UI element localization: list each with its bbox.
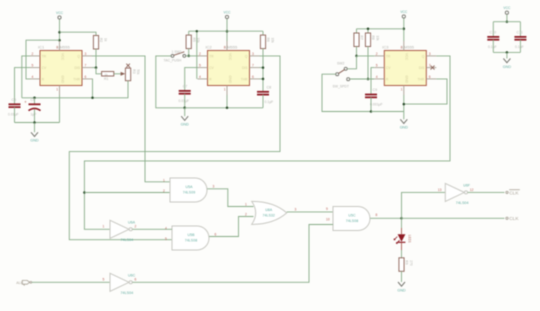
svg-text:5: 5 bbox=[376, 64, 378, 68]
junction VCC3 / resistor branch bbox=[403, 28, 406, 31]
unconnected-pin X mark on R3 top bbox=[126, 64, 130, 68]
svg-text:LM555: LM555 bbox=[402, 44, 415, 49]
svg-text:4: 4 bbox=[376, 75, 378, 79]
svg-text:10: 10 bbox=[326, 218, 330, 222]
svg-text:GND: GND bbox=[503, 65, 512, 69]
wire S1 to IC2 TR pin 2 bbox=[186, 55, 198, 57]
wire U6A output to U5B input 4 bbox=[132, 228, 172, 230]
op IC2 LM555 timer bbox=[198, 41, 260, 95]
capacitor C10 bbox=[487, 31, 499, 49]
svg-text:3: 3 bbox=[295, 207, 297, 211]
wire IC1 TR pin 2 to loop bbox=[22, 56, 30, 98]
svg-text:2: 2 bbox=[163, 189, 165, 193]
wire IC3 CV pin 5 to C9 bbox=[371, 68, 374, 95]
op IC1 LM555 timer bbox=[30, 41, 92, 95]
svg-text:74LS04: 74LS04 bbox=[456, 201, 469, 205]
junction C9 / rail bbox=[370, 110, 373, 113]
svg-text:2: 2 bbox=[199, 52, 201, 56]
svg-text:Q: Q bbox=[422, 54, 425, 58]
junction DIS1 node bbox=[95, 66, 98, 69]
resistor R2 bbox=[93, 36, 107, 50]
switch S1 push button bbox=[171, 55, 174, 58]
wire ALE to U6C input bbox=[32, 281, 110, 283]
capacitor C11 bbox=[514, 31, 526, 49]
power symbol VCC (bypass) bbox=[503, 6, 511, 14]
svg-text:THR: THR bbox=[241, 77, 248, 81]
ground rail circuit 3 bbox=[371, 111, 404, 113]
power symbol VCC (circuit 1) bbox=[56, 11, 64, 19]
svg-text:R7: R7 bbox=[360, 36, 364, 40]
svg-text:12: 12 bbox=[470, 188, 474, 192]
power symbol VCC (circuit 3) bbox=[400, 10, 408, 18]
unconnected-pin X mark on IC3 DIS pin 7 bbox=[431, 66, 435, 70]
svg-text:THR: THR bbox=[73, 77, 80, 81]
svg-text:5: 5 bbox=[103, 278, 105, 282]
wire VCC2 vertical to IC2 pin 8 bbox=[226, 19, 228, 41]
bypass bottom rail bbox=[492, 40, 494, 53]
svg-text:6: 6 bbox=[215, 232, 217, 236]
wire IC1 GND pin 1 to rail bbox=[59, 95, 61, 123]
wire DIS1 node to R1 bbox=[96, 68, 102, 74]
svg-text:10k: 10k bbox=[375, 36, 379, 42]
resistor R6 bbox=[260, 35, 274, 49]
svg-text:R5: R5 bbox=[192, 38, 196, 42]
gate U5C 74LS08 AND bbox=[326, 207, 378, 231]
svg-text:1: 1 bbox=[245, 202, 247, 206]
svg-text:74LS04: 74LS04 bbox=[121, 238, 134, 242]
svg-text:C7: C7 bbox=[183, 85, 188, 89]
svg-text:3: 3 bbox=[252, 52, 254, 56]
wire IC2 THR pin 6 to node bbox=[260, 78, 264, 80]
svg-text:3: 3 bbox=[213, 184, 215, 188]
svg-text:U8A: U8A bbox=[265, 208, 273, 212]
wire VCC3 vertical to IC3 pin 8 bbox=[403, 18, 405, 41]
svg-text:Q: Q bbox=[245, 54, 248, 58]
gate U5B 74LS08 AND bbox=[165, 226, 217, 250]
svg-text:LM555: LM555 bbox=[225, 44, 238, 49]
svg-text:0.01µF: 0.01µF bbox=[179, 99, 190, 103]
junction THR1 / loop bbox=[91, 97, 94, 100]
svg-text:6: 6 bbox=[429, 75, 431, 79]
svg-text:GND: GND bbox=[397, 288, 406, 292]
wire C9 bottom to rail bbox=[370, 97, 372, 111]
svg-text:VCC: VCC bbox=[400, 10, 408, 14]
wire IC2 R pin 4 tie to VCC rail bbox=[196, 31, 198, 79]
wire R1 to R3 wiper bbox=[114, 73, 121, 75]
svg-text:C5: C5 bbox=[12, 98, 17, 102]
wire loop to C6 top bbox=[34, 98, 36, 105]
inverter U6C 74LS04 bbox=[103, 273, 137, 295]
wire to GND symbol bbox=[34, 123, 36, 133]
wire SW2 throw2 to IC3 R pin 4 bbox=[350, 78, 375, 80]
svg-text:0.001µF: 0.001µF bbox=[370, 103, 383, 107]
svg-text:U6C: U6C bbox=[128, 273, 136, 277]
svg-text:GND: GND bbox=[60, 76, 64, 84]
svg-text:VCC: VCC bbox=[60, 53, 64, 61]
svg-text:GND: GND bbox=[181, 123, 190, 127]
svg-text:IC3: IC3 bbox=[382, 44, 389, 49]
resistor R1 (horizontal) bbox=[102, 72, 114, 77]
wire IC1 THR pin 6 down to loop bbox=[91, 79, 94, 98]
junction DIS2 bbox=[262, 66, 265, 69]
resistor R8 bbox=[365, 33, 379, 47]
wire CLK node to inverter U6F bbox=[402, 192, 446, 218]
wire R8 bottom to R pin line bbox=[367, 47, 369, 80]
junction ground rail / GND symbol bbox=[33, 121, 36, 124]
ground (bypass) bbox=[503, 59, 512, 69]
wire to GND symbol (bypass) bbox=[506, 52, 508, 58]
junction CLK node bbox=[400, 217, 403, 220]
wire R3 bottom to TR/THR loop bbox=[22, 81, 128, 98]
svg-text:5: 5 bbox=[32, 64, 34, 68]
wire S1 left terminal to ground rail bbox=[156, 56, 185, 108]
svg-text:R3: R3 bbox=[132, 69, 136, 73]
wire R2 bottom to DIS node bbox=[95, 49, 97, 68]
svg-text:4: 4 bbox=[32, 75, 34, 79]
wire IC1 CV pin 5 to C5 bbox=[15, 68, 31, 105]
wire VCC1 to R2 top bbox=[60, 32, 97, 35]
svg-text:4: 4 bbox=[199, 75, 201, 79]
svg-text:2: 2 bbox=[135, 225, 137, 229]
svg-text:7: 7 bbox=[252, 64, 254, 68]
junction bypass top bbox=[506, 20, 509, 23]
potentiometer R3 wiper arrow bbox=[121, 72, 126, 76]
svg-text:C8: C8 bbox=[267, 85, 272, 89]
svg-text:1µF: 1µF bbox=[31, 113, 37, 117]
wire U5B output to U8A input 2 bbox=[209, 217, 253, 237]
svg-text:2: 2 bbox=[245, 212, 247, 216]
svg-text:CV: CV bbox=[209, 66, 214, 70]
svg-text:GND: GND bbox=[30, 139, 39, 143]
svg-text:6: 6 bbox=[85, 75, 87, 79]
svg-text:R9: R9 bbox=[405, 260, 409, 264]
wire U6F output to nCLK terminal bbox=[468, 191, 505, 193]
wire C5 bottom to ground rail bbox=[14, 107, 16, 122]
junction R8 / reset line bbox=[367, 78, 370, 81]
wire CLK node down to LED1 bbox=[401, 218, 403, 228]
wire U8A output to U5C input 9 bbox=[287, 211, 333, 213]
svg-text:0.1µF: 0.1µF bbox=[488, 45, 497, 49]
svg-text:1 SW1: 1 SW1 bbox=[172, 50, 182, 54]
wire IC2 DIS pin 7 to node bbox=[260, 67, 264, 69]
svg-text:R6: R6 bbox=[266, 38, 270, 42]
svg-text:7: 7 bbox=[429, 64, 431, 68]
op IC3 LM555 timer bbox=[374, 41, 436, 95]
svg-text:1: 1 bbox=[401, 87, 403, 91]
svg-text:R2: R2 bbox=[99, 38, 103, 42]
svg-text:C6: C6 bbox=[31, 98, 36, 102]
wire Q3 branch to U5A input 2 bbox=[84, 192, 170, 194]
svg-text:VCC: VCC bbox=[56, 11, 64, 15]
svg-text:5: 5 bbox=[199, 64, 201, 68]
svg-text:U6A: U6A bbox=[128, 220, 136, 224]
junction R7 / TR3 bbox=[355, 55, 358, 58]
svg-text:U5B: U5B bbox=[188, 233, 196, 237]
svg-text:LED1: LED1 bbox=[407, 235, 411, 243]
svg-text:C9: C9 bbox=[373, 88, 378, 92]
wire SW2 common to ground rail bbox=[322, 74, 371, 111]
wire C6 bottom to ground rail bbox=[34, 110, 36, 123]
svg-text:IC1: IC1 bbox=[38, 44, 45, 49]
svg-text:5: 5 bbox=[165, 237, 167, 241]
junction Q3 / U5A input 2 branch bbox=[83, 191, 86, 194]
svg-text:C10: C10 bbox=[490, 31, 497, 35]
svg-text:50k: 50k bbox=[136, 69, 140, 75]
junction VCC1 / reset branch bbox=[58, 39, 61, 42]
svg-text:GND: GND bbox=[405, 76, 409, 84]
capacitor C7 bbox=[179, 85, 191, 103]
svg-text:74LS08: 74LS08 bbox=[346, 219, 358, 223]
svg-text:SW2: SW2 bbox=[337, 62, 344, 66]
wire to GND symbol (circuit 3) bbox=[403, 112, 405, 120]
junction rail / GND symbol (circuit 2) bbox=[183, 107, 186, 110]
junction VCC1 / R2 branch bbox=[58, 31, 61, 34]
svg-text:CV: CV bbox=[386, 66, 391, 70]
svg-text:DIS: DIS bbox=[242, 66, 248, 70]
resistor R7 bbox=[354, 33, 368, 47]
wire SW2 throw1 to TR3 line bbox=[347, 56, 356, 69]
svg-text:74LS32: 74LS32 bbox=[263, 214, 275, 218]
or-gate U8A 74LS32 bbox=[252, 201, 287, 224]
svg-text:+: + bbox=[24, 99, 27, 104]
svg-text:SW_SPDT: SW_SPDT bbox=[333, 84, 349, 88]
wire net Q2: IC2 Q pin 3 to gate U5B input 5 bbox=[69, 56, 280, 240]
svg-text:1k: 1k bbox=[103, 38, 107, 42]
ground (circuit 2) bbox=[181, 116, 190, 126]
wire CLK node to CLK terminal bbox=[402, 217, 505, 219]
svg-text:8: 8 bbox=[376, 213, 378, 217]
terminal nCLK bbox=[506, 191, 508, 193]
svg-text:0.01µF: 0.01µF bbox=[8, 112, 19, 116]
junction C6 / loop bbox=[33, 97, 36, 100]
junction R5 / TR2 line bbox=[187, 55, 190, 58]
svg-text:1: 1 bbox=[56, 87, 58, 91]
svg-text:U5C: U5C bbox=[348, 214, 356, 218]
svg-text:270: 270 bbox=[409, 260, 413, 266]
junction THR3 loop / GND pin bbox=[403, 103, 406, 106]
svg-text:74LS08: 74LS08 bbox=[185, 238, 197, 242]
wire VCC1 vertical to IC1 pin 8 bbox=[59, 19, 61, 41]
power symbol VCC (circuit 2) bbox=[224, 10, 232, 18]
svg-text:3: 3 bbox=[429, 52, 431, 56]
wire LED1 to R9 bbox=[401, 243, 403, 250]
svg-text:TR: TR bbox=[42, 54, 47, 58]
wire to GND symbol bbox=[184, 108, 186, 116]
wire IC1 DIS pin 7 to node bbox=[92, 67, 96, 69]
svg-text:2: 2 bbox=[32, 52, 34, 56]
svg-text:CV: CV bbox=[42, 66, 47, 70]
ground (circuit 1) bbox=[30, 132, 39, 142]
svg-text:74LS09: 74LS09 bbox=[183, 190, 195, 194]
wire U5C output to junction node bbox=[370, 217, 401, 219]
junction THR2 bbox=[262, 78, 265, 81]
resistor R5 bbox=[186, 35, 200, 49]
svg-text:VCC: VCC bbox=[224, 10, 232, 14]
svg-text:2: 2 bbox=[376, 52, 378, 56]
svg-text:C11: C11 bbox=[517, 31, 523, 35]
inverter U6F 74LS04 bbox=[438, 183, 474, 205]
junction bypass bottom bbox=[506, 51, 509, 54]
svg-text:DIS: DIS bbox=[419, 66, 425, 70]
svg-text:IC2: IC2 bbox=[206, 44, 213, 49]
bypass top rail bbox=[493, 21, 520, 23]
svg-text:1: 1 bbox=[224, 87, 226, 91]
ground rail circuit 1 bbox=[15, 122, 60, 124]
svg-text:TR: TR bbox=[209, 54, 214, 58]
svg-text:4: 4 bbox=[165, 226, 167, 230]
wire C8 bottom to rail bbox=[262, 95, 264, 108]
svg-text:THR: THR bbox=[418, 77, 425, 81]
capacitor C9 bbox=[365, 88, 383, 106]
svg-text:VCC: VCC bbox=[405, 53, 409, 61]
svg-text:1: 1 bbox=[103, 225, 105, 229]
wire VCC1 to IC1 R pin 4 bbox=[26, 40, 60, 79]
wire IC3 THR pin 6 loop to ground bbox=[404, 79, 447, 104]
gate U5A 74LS09 AND bbox=[163, 178, 215, 202]
wire VCC2 to R5 and R6 tops bbox=[189, 30, 263, 32]
wire IC2 CV pin 5 to C7 bbox=[185, 68, 198, 91]
svg-text:LM555: LM555 bbox=[58, 44, 71, 49]
capacitor C6 (polarized) bbox=[29, 103, 41, 105]
wire U6C output to U5C input 10 bbox=[132, 225, 333, 283]
svg-text:9: 9 bbox=[326, 207, 328, 211]
svg-text:CLK: CLK bbox=[509, 216, 519, 222]
svg-text:U6F: U6F bbox=[463, 183, 471, 187]
svg-text:VCC: VCC bbox=[228, 53, 232, 61]
wire VCC to bypass caps bbox=[506, 15, 508, 22]
LED LED1 bbox=[398, 234, 406, 242]
ground rail circuit 2 bbox=[185, 107, 263, 109]
svg-text:Q: Q bbox=[77, 54, 80, 58]
svg-text:R8: R8 bbox=[371, 36, 375, 40]
resistor R9 bbox=[399, 258, 413, 272]
svg-text:TAC_PUSH: TAC_PUSH bbox=[164, 59, 182, 63]
wire R6 bottom through DIS/THR to C8 bbox=[262, 49, 264, 92]
svg-text:R1: R1 bbox=[104, 77, 108, 81]
svg-text:TR: TR bbox=[386, 54, 391, 58]
junction R8 top bbox=[367, 28, 370, 31]
wire R7 bottom to TR3 line bbox=[356, 47, 358, 56]
svg-text:6: 6 bbox=[252, 75, 254, 79]
svg-text:VCC: VCC bbox=[503, 6, 511, 10]
wire R5 bottom to TR2 line bbox=[188, 49, 190, 56]
potentiometer R3 bbox=[125, 68, 130, 81]
svg-text:1k: 1k bbox=[105, 72, 109, 76]
wire net Q1: IC1 Q pin 3 to gate U5A input 1 bbox=[92, 56, 170, 182]
wire C7 bottom to rail bbox=[184, 94, 186, 108]
svg-text:GND: GND bbox=[400, 126, 409, 130]
wire TR3 line to IC3 TR pin 2 bbox=[357, 55, 375, 57]
svg-text:1: 1 bbox=[163, 178, 165, 182]
wire IC2 GND pin 1 to rail bbox=[226, 95, 228, 108]
wire net Q3: IC3 Q pin 3 to U5A input 2 and U6A input bbox=[84, 56, 450, 229]
svg-text:U5A: U5A bbox=[186, 185, 194, 189]
svg-text:3: 3 bbox=[85, 52, 87, 56]
svg-text:0.1µF: 0.1µF bbox=[515, 45, 524, 49]
wire VCC3 to R7 and R8 tops bbox=[357, 28, 404, 30]
wire IC3 GND pin 1 to rail bbox=[403, 95, 405, 112]
svg-text:GND: GND bbox=[228, 76, 232, 84]
svg-text:0.1µF: 0.1µF bbox=[265, 100, 274, 104]
svg-text:13: 13 bbox=[438, 188, 442, 192]
terminal CLK bbox=[506, 217, 508, 219]
junction VCC2 / resistor branches bbox=[226, 30, 229, 33]
capacitor C5 bbox=[8, 98, 21, 116]
wire R9 to GND bbox=[401, 271, 403, 282]
ground (LED) bbox=[397, 282, 406, 292]
svg-text:CLK: CLK bbox=[509, 190, 519, 196]
svg-text:7: 7 bbox=[85, 64, 87, 68]
ground (circuit 3) bbox=[400, 119, 409, 129]
wire U5A output to U8A input 1 bbox=[207, 189, 253, 207]
switch SW2 SPDT bbox=[344, 67, 347, 70]
svg-text:DIS: DIS bbox=[75, 66, 81, 70]
junction IC2 GND / rail bbox=[226, 107, 229, 110]
inverter U6A 74LS04 bbox=[103, 220, 137, 242]
svg-text:6: 6 bbox=[135, 278, 137, 282]
svg-text:10k: 10k bbox=[270, 38, 274, 44]
capacitor C8 bbox=[257, 85, 273, 103]
svg-text:74LS04: 74LS04 bbox=[121, 291, 134, 295]
